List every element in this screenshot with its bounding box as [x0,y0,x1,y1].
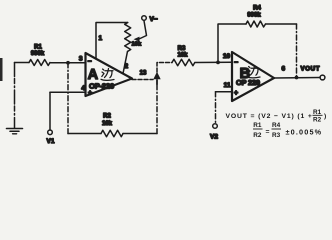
svg-text:990k: 990k [247,12,261,18]
svg-text:R1: R1 [253,122,262,129]
svg-text:10: 10 [223,53,231,60]
wire ground to R1 [15,62,30,64]
svg-text:R2: R2 [253,132,262,139]
svg-text:4: 4 [81,85,85,92]
svg-text:6: 6 [282,66,286,73]
svg-text:VOUT: VOUT [301,66,321,73]
svg-text:R1: R1 [313,109,322,116]
node: junction R1 / pin3 / R2 [66,61,70,65]
ground [7,63,23,134]
wire R4 feedback loop [218,24,246,62]
svg-text:R4: R4 [253,5,261,11]
svg-text:990k: 990k [31,51,45,57]
wire A output [132,79,153,81]
svg-text:R3: R3 [272,132,281,139]
svg-text:−: − [234,59,238,66]
wire R1 to A inverting input [50,62,86,64]
formula R1/R2 = R4/R3 +/-0.005% [253,122,322,139]
node: output junction [295,76,299,80]
svg-text:V1: V1 [47,138,55,145]
svg-text:VOUT = (V2 − V1) (1 +: VOUT = (V2 − V1) (1 + [226,113,313,120]
terminal V1 [47,92,55,145]
wire B output [274,77,320,80]
wire R3 to B inverting input [195,61,232,63]
svg-text:V−: V− [150,16,158,23]
wire bottom feedback [68,133,101,135]
terminal VOUT [320,75,325,80]
wire A output to R3 (dashed) [157,63,172,73]
op-amp U1 side B (OP-220) [232,52,274,101]
svg-text:A: A [88,67,99,83]
formula VOUT = (V2 - V1)(1 + R1/R2) [226,109,327,124]
svg-text:10k: 10k [177,53,188,59]
pot wiper to V- [134,21,147,42]
svg-text:±0.005%: ±0.005% [286,128,323,137]
svg-text:1: 1 [99,35,103,42]
svg-text:OP-220: OP-220 [89,82,114,91]
svg-text:+: + [234,90,238,97]
node: A output junction (arrow) [153,72,160,85]
svg-text:R4: R4 [272,122,281,129]
terminal V- [142,16,147,21]
svg-text:V2: V2 [210,134,218,141]
resistor R2 10k [101,114,123,137]
scan smudge left edge [0,58,3,81]
wire A output down to R2 (dash-dot) [156,85,158,134]
svg-text:−: − [88,59,92,66]
svg-text:R3: R3 [178,46,186,52]
wire junction down to R2 (dash-dot) [67,63,69,134]
hanzi 边 (drawn) [101,69,114,81]
svg-text:3: 3 [79,56,83,63]
pin 2 stub pot to A [123,51,128,73]
svg-text:=: = [266,129,270,136]
svg-text:R2: R2 [103,114,111,120]
resistor R1 990k [29,45,50,66]
node: junction R3 / R4 / pin10 [216,61,220,65]
wire R4 to B output (right vertical) [266,23,297,25]
svg-text:2: 2 [125,63,129,70]
svg-text:10k: 10k [132,42,142,48]
svg-text:13: 13 [140,71,147,77]
svg-text:+: + [88,90,92,97]
terminal V2 [210,92,218,141]
svg-text:10k: 10k [102,121,113,127]
svg-text:11: 11 [224,82,231,89]
wire V1 to A non-inverting input [50,91,86,93]
pin 11 wire from V2 [216,91,233,93]
resistor R4 990k [246,5,266,27]
potentiometer 10k (offset null) [125,23,142,52]
resistor R3 10k [172,46,195,66]
svg-text:): ) [324,113,326,120]
wire R2 to A output vertical [123,133,157,135]
svg-text:R2: R2 [313,117,322,124]
op-amp U1 side A (OP-220) [86,53,133,97]
svg-text:OP 220: OP 220 [236,78,260,87]
hanzi 边 (drawn) [247,66,260,78]
pin 1 wire to offset pot [96,23,128,60]
svg-text:R1: R1 [34,45,42,51]
